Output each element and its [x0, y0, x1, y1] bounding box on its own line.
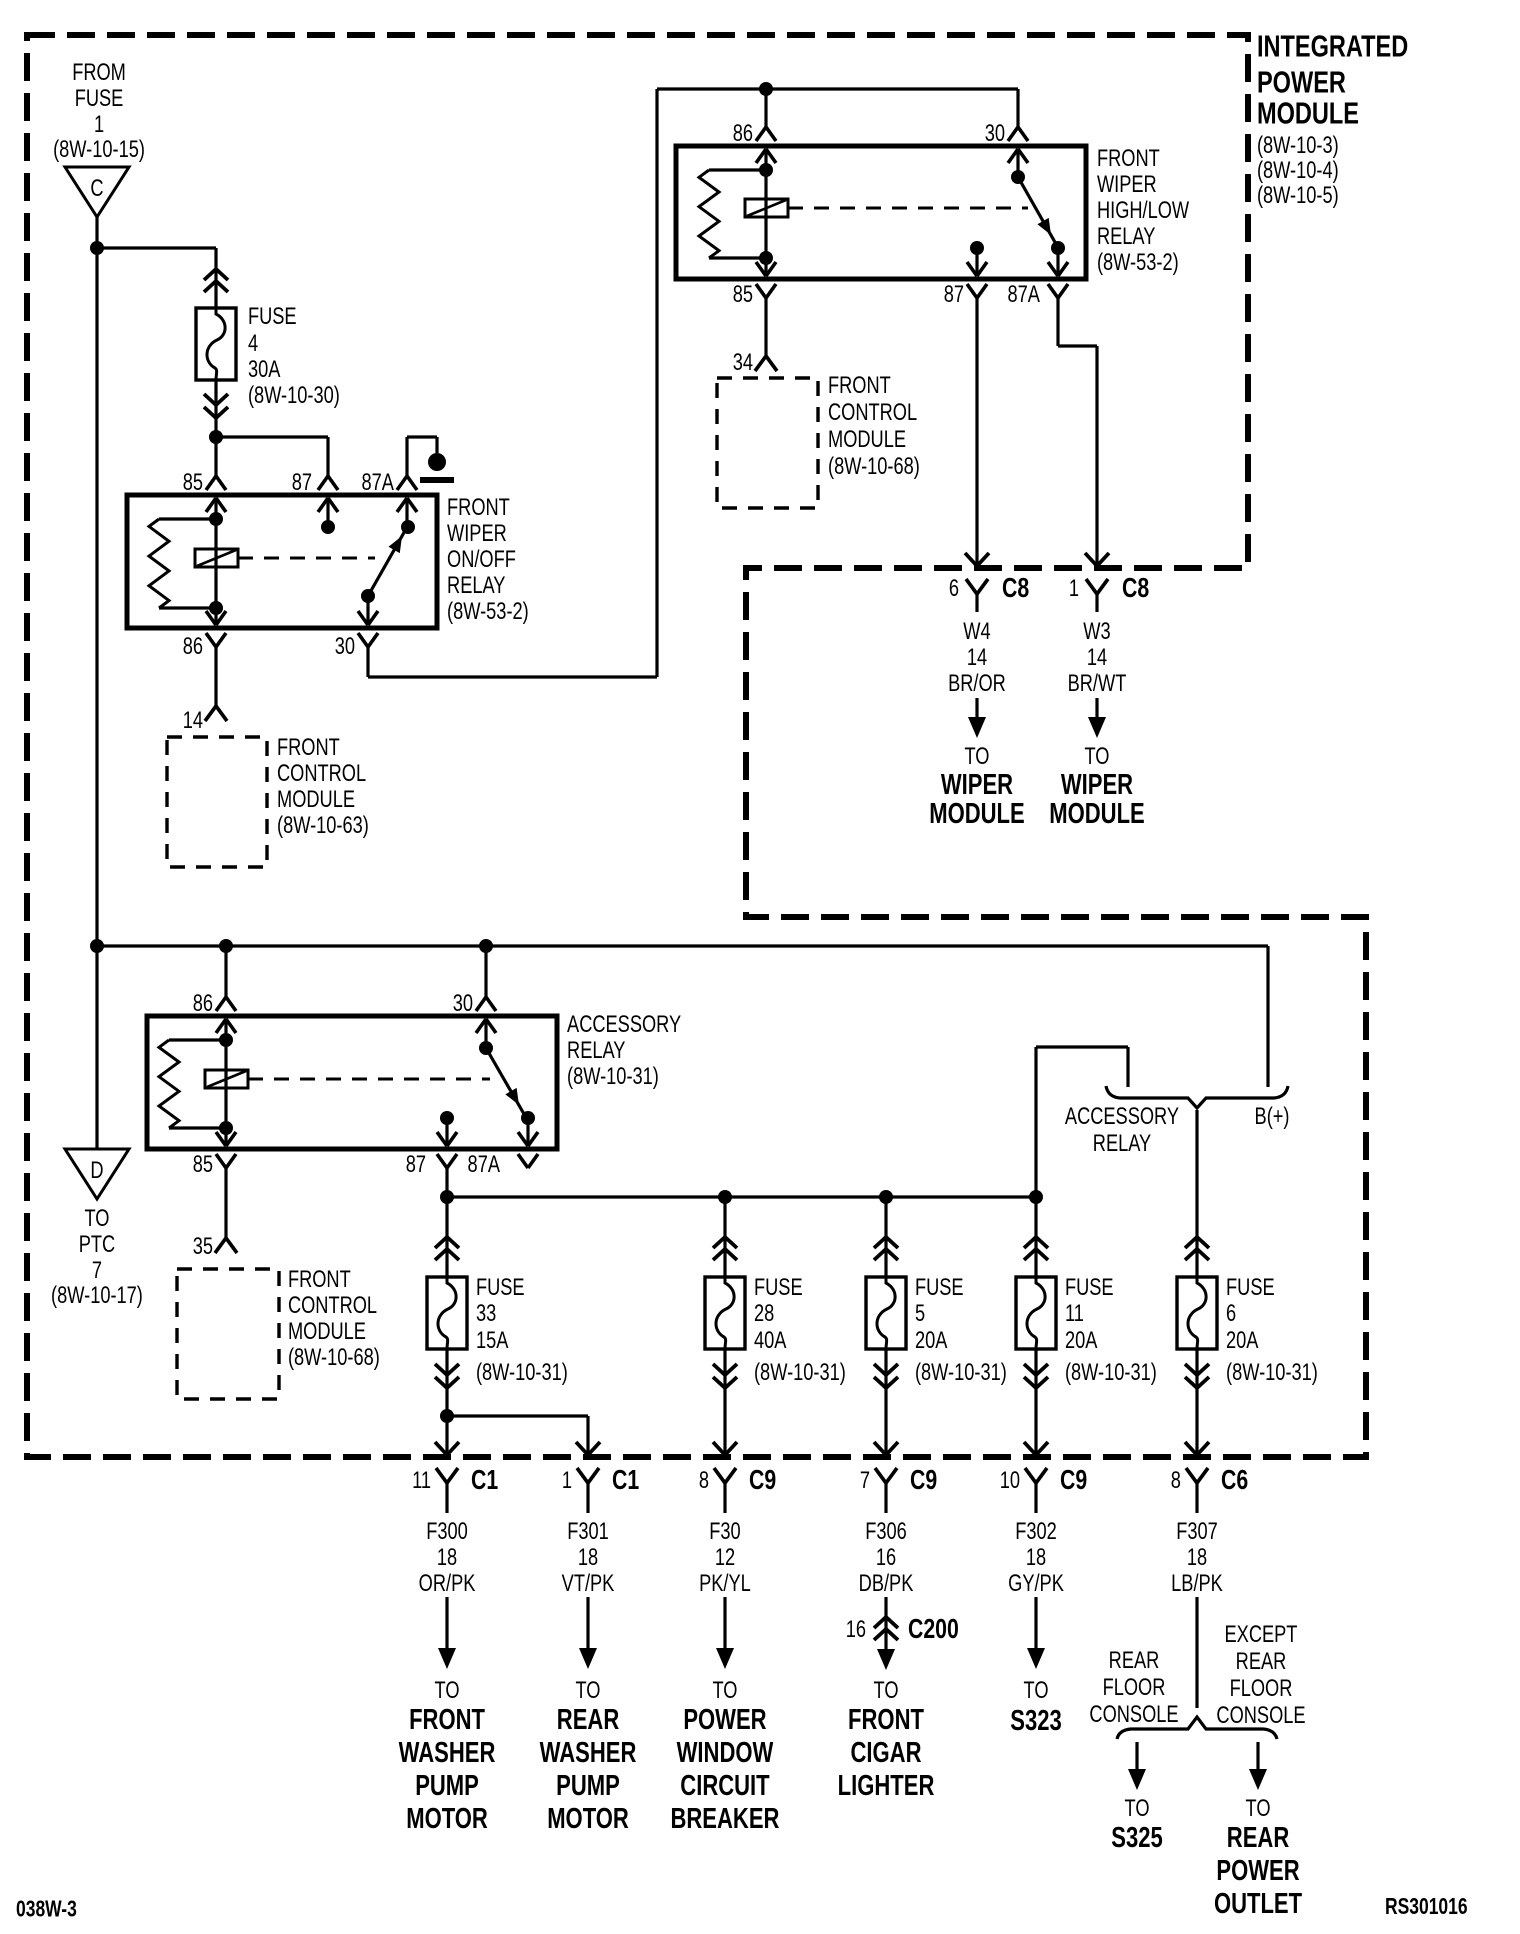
- svg-text:CIGAR: CIGAR: [851, 1737, 922, 1769]
- svg-text:FUSE: FUSE: [476, 1273, 525, 1300]
- svg-text:40A: 40A: [754, 1326, 787, 1353]
- svg-text:F300: F300: [426, 1517, 468, 1544]
- svg-text:CIRCUIT: CIRCUIT: [680, 1770, 770, 1802]
- svg-text:1: 1: [1069, 574, 1079, 601]
- svg-text:MODULE: MODULE: [288, 1317, 366, 1344]
- svg-text:10: 10: [1000, 1466, 1020, 1493]
- svg-text:FUSE: FUSE: [915, 1273, 964, 1300]
- svg-text:(8W-10-30): (8W-10-30): [248, 381, 340, 408]
- svg-text:FUSE: FUSE: [1065, 1273, 1114, 1300]
- svg-text:038W-3: 038W-3: [16, 1898, 77, 1923]
- svg-text:86: 86: [193, 989, 213, 1016]
- svg-text:INTEGRATED: INTEGRATED: [1257, 29, 1408, 64]
- svg-text:FRONT: FRONT: [828, 371, 891, 398]
- svg-text:WINDOW: WINDOW: [677, 1737, 774, 1769]
- svg-text:20A: 20A: [915, 1326, 948, 1353]
- svg-text:RS301016: RS301016: [1385, 1895, 1468, 1920]
- svg-text:MOTOR: MOTOR: [547, 1803, 629, 1835]
- svg-text:(8W-53-2): (8W-53-2): [1097, 248, 1179, 275]
- svg-text:RELAY: RELAY: [1093, 1129, 1151, 1156]
- svg-text:CONTROL: CONTROL: [828, 398, 917, 425]
- svg-text:86: 86: [183, 632, 203, 659]
- svg-text:(8W-10-31): (8W-10-31): [567, 1062, 659, 1089]
- svg-text:MODULE: MODULE: [277, 785, 355, 812]
- svg-text:12: 12: [715, 1543, 735, 1570]
- svg-text:18: 18: [437, 1543, 457, 1570]
- svg-text:(8W-10-68): (8W-10-68): [828, 452, 920, 479]
- svg-text:POWER: POWER: [1257, 65, 1346, 100]
- svg-text:87: 87: [406, 1150, 426, 1177]
- svg-text:C9: C9: [749, 1464, 776, 1496]
- svg-text:TO: TO: [712, 1676, 737, 1703]
- svg-text:B(+): B(+): [1255, 1102, 1290, 1129]
- svg-text:1: 1: [94, 110, 104, 137]
- svg-text:FLOOR: FLOOR: [1103, 1673, 1166, 1700]
- svg-text:(8W-10-31): (8W-10-31): [915, 1358, 1007, 1385]
- svg-text:(8W-10-17): (8W-10-17): [51, 1281, 143, 1308]
- svg-text:4: 4: [248, 329, 258, 356]
- svg-text:F306: F306: [865, 1517, 907, 1544]
- svg-text:WASHER: WASHER: [540, 1737, 637, 1769]
- svg-text:LB/PK: LB/PK: [1171, 1569, 1223, 1596]
- svg-text:(8W-10-68): (8W-10-68): [288, 1343, 380, 1370]
- svg-text:6: 6: [949, 574, 959, 601]
- svg-text:87: 87: [944, 280, 964, 307]
- svg-text:TO: TO: [874, 1676, 899, 1703]
- svg-text:D: D: [90, 1156, 103, 1183]
- svg-text:16: 16: [846, 1615, 866, 1642]
- svg-text:FRONT: FRONT: [409, 1704, 485, 1736]
- svg-text:87A: 87A: [468, 1150, 501, 1177]
- svg-text:REAR: REAR: [557, 1704, 620, 1736]
- svg-text:CONSOLE: CONSOLE: [1216, 1701, 1305, 1728]
- svg-text:28: 28: [754, 1299, 774, 1326]
- svg-text:F301: F301: [567, 1517, 609, 1544]
- svg-text:BR/OR: BR/OR: [948, 669, 1006, 696]
- svg-text:8: 8: [699, 1466, 709, 1493]
- svg-text:WIPER: WIPER: [1061, 769, 1134, 801]
- svg-text:33: 33: [476, 1299, 496, 1326]
- svg-text:PK/YL: PK/YL: [699, 1569, 751, 1596]
- svg-text:TO: TO: [84, 1204, 109, 1231]
- svg-text:POWER: POWER: [1216, 1855, 1300, 1887]
- svg-text:C200: C200: [908, 1613, 959, 1645]
- svg-text:30A: 30A: [248, 355, 281, 382]
- svg-text:MODULE: MODULE: [828, 425, 906, 452]
- svg-text:LIGHTER: LIGHTER: [838, 1770, 935, 1802]
- svg-text:6: 6: [1226, 1299, 1236, 1326]
- svg-text:TO: TO: [435, 1676, 460, 1703]
- svg-text:C1: C1: [612, 1464, 639, 1496]
- svg-text:15A: 15A: [476, 1326, 509, 1353]
- svg-text:F302: F302: [1015, 1517, 1057, 1544]
- svg-text:MOTOR: MOTOR: [406, 1803, 488, 1835]
- svg-text:CONTROL: CONTROL: [288, 1291, 377, 1318]
- svg-text:(8W-53-2): (8W-53-2): [447, 597, 529, 624]
- svg-text:FROM: FROM: [72, 58, 126, 85]
- svg-text:BREAKER: BREAKER: [670, 1803, 779, 1835]
- svg-text:20A: 20A: [1226, 1326, 1259, 1353]
- svg-text:18: 18: [1026, 1543, 1046, 1570]
- svg-text:C1: C1: [471, 1464, 498, 1496]
- svg-text:30: 30: [985, 119, 1005, 146]
- svg-text:CONSOLE: CONSOLE: [1089, 1700, 1178, 1727]
- svg-text:(8W-10-31): (8W-10-31): [1065, 1358, 1157, 1385]
- svg-text:S323: S323: [1010, 1705, 1061, 1737]
- svg-text:(8W-10-3): (8W-10-3): [1257, 131, 1339, 158]
- svg-text:TO: TO: [1125, 1794, 1150, 1821]
- svg-text:34: 34: [733, 348, 753, 375]
- svg-text:RELAY: RELAY: [1097, 222, 1155, 249]
- svg-text:87A: 87A: [1008, 280, 1041, 307]
- svg-text:7: 7: [860, 1466, 870, 1493]
- svg-text:HIGH/LOW: HIGH/LOW: [1097, 196, 1190, 223]
- svg-text:F30: F30: [709, 1517, 741, 1544]
- svg-text:ACCESSORY: ACCESSORY: [567, 1010, 681, 1037]
- svg-text:FRONT: FRONT: [288, 1265, 351, 1292]
- svg-text:MODULE: MODULE: [1049, 798, 1144, 830]
- svg-text:PUMP: PUMP: [415, 1770, 479, 1802]
- svg-text:DB/PK: DB/PK: [859, 1569, 914, 1596]
- svg-text:TO: TO: [964, 742, 989, 769]
- svg-text:WASHER: WASHER: [399, 1737, 496, 1769]
- svg-text:C9: C9: [1060, 1464, 1087, 1496]
- svg-text:VT/PK: VT/PK: [562, 1569, 615, 1596]
- svg-text:8: 8: [1171, 1466, 1181, 1493]
- svg-text:11: 11: [1065, 1299, 1084, 1326]
- svg-text:35: 35: [193, 1232, 213, 1259]
- svg-text:ON/OFF: ON/OFF: [447, 545, 516, 572]
- svg-text:(8W-10-15): (8W-10-15): [53, 135, 145, 162]
- svg-text:C6: C6: [1221, 1464, 1248, 1496]
- svg-text:OR/PK: OR/PK: [419, 1569, 476, 1596]
- svg-text:REAR: REAR: [1227, 1822, 1290, 1854]
- svg-text:TO: TO: [576, 1676, 601, 1703]
- svg-text:FRONT: FRONT: [447, 493, 510, 520]
- svg-text:18: 18: [578, 1543, 598, 1570]
- svg-text:FUSE: FUSE: [248, 302, 297, 329]
- svg-text:18: 18: [1187, 1543, 1207, 1570]
- svg-text:1: 1: [562, 1466, 572, 1493]
- svg-text:(8W-10-4): (8W-10-4): [1257, 156, 1339, 183]
- svg-text:(8W-10-5): (8W-10-5): [1257, 181, 1339, 208]
- svg-text:7: 7: [92, 1256, 102, 1283]
- svg-text:30: 30: [335, 632, 355, 659]
- svg-text:MODULE: MODULE: [929, 798, 1024, 830]
- svg-text:OUTLET: OUTLET: [1214, 1888, 1302, 1920]
- svg-text:RELAY: RELAY: [567, 1036, 625, 1063]
- svg-text:W4: W4: [963, 617, 990, 644]
- svg-text:FUSE: FUSE: [754, 1273, 803, 1300]
- svg-text:EXCEPT: EXCEPT: [1225, 1620, 1298, 1647]
- svg-text:(8W-10-63): (8W-10-63): [277, 811, 369, 838]
- svg-text:FRONT: FRONT: [277, 733, 340, 760]
- svg-text:16: 16: [876, 1543, 896, 1570]
- svg-text:TO: TO: [1084, 742, 1109, 769]
- svg-text:85: 85: [193, 1150, 213, 1177]
- svg-text:PTC: PTC: [79, 1230, 115, 1257]
- svg-text:14: 14: [967, 643, 987, 670]
- svg-text:WIPER: WIPER: [447, 519, 507, 546]
- svg-text:5: 5: [915, 1299, 925, 1326]
- svg-text:FRONT: FRONT: [1097, 144, 1160, 171]
- svg-text:(8W-10-31): (8W-10-31): [476, 1358, 568, 1385]
- svg-text:85: 85: [183, 468, 203, 495]
- svg-text:85: 85: [733, 280, 753, 307]
- svg-text:C: C: [90, 174, 103, 201]
- svg-text:PUMP: PUMP: [556, 1770, 620, 1802]
- svg-text:GY/PK: GY/PK: [1008, 1569, 1064, 1596]
- svg-text:TO: TO: [1246, 1794, 1271, 1821]
- svg-text:REAR: REAR: [1109, 1646, 1160, 1673]
- svg-text:BR/WT: BR/WT: [1068, 669, 1127, 696]
- svg-text:RELAY: RELAY: [447, 571, 505, 598]
- svg-text:86: 86: [733, 119, 753, 146]
- svg-text:REAR: REAR: [1236, 1647, 1287, 1674]
- svg-text:FUSE: FUSE: [75, 84, 124, 111]
- svg-text:CONTROL: CONTROL: [277, 759, 366, 786]
- svg-text:20A: 20A: [1065, 1326, 1098, 1353]
- svg-text:87: 87: [292, 468, 312, 495]
- svg-text:87A: 87A: [362, 468, 395, 495]
- svg-text:FLOOR: FLOOR: [1230, 1674, 1293, 1701]
- svg-text:14: 14: [1087, 643, 1107, 670]
- svg-text:S325: S325: [1111, 1822, 1162, 1854]
- svg-text:ACCESSORY: ACCESSORY: [1065, 1102, 1179, 1129]
- svg-text:WIPER: WIPER: [941, 769, 1014, 801]
- svg-text:F307: F307: [1176, 1517, 1218, 1544]
- svg-text:FUSE: FUSE: [1226, 1273, 1275, 1300]
- svg-text:WIPER: WIPER: [1097, 170, 1157, 197]
- svg-text:C9: C9: [910, 1464, 937, 1496]
- svg-text:TO: TO: [1024, 1676, 1049, 1703]
- svg-text:(8W-10-31): (8W-10-31): [1226, 1358, 1318, 1385]
- svg-text:11: 11: [412, 1466, 431, 1493]
- svg-text:W3: W3: [1083, 617, 1110, 644]
- svg-text:POWER: POWER: [683, 1704, 767, 1736]
- svg-text:C8: C8: [1122, 572, 1149, 604]
- svg-text:C8: C8: [1002, 572, 1029, 604]
- svg-text:FRONT: FRONT: [848, 1704, 924, 1736]
- svg-text:(8W-10-31): (8W-10-31): [754, 1358, 846, 1385]
- svg-text:14: 14: [183, 706, 203, 733]
- svg-text:30: 30: [453, 989, 473, 1016]
- svg-text:MODULE: MODULE: [1257, 96, 1359, 131]
